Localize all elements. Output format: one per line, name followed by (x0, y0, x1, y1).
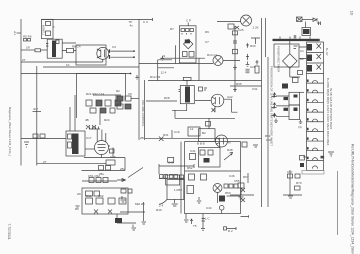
svg-text:T-707/2021: T-707/2021 (7, 224, 11, 240)
svg-text:21: 21 (162, 54, 166, 58)
svg-text:C19: C19 (174, 130, 180, 134)
svg-text:C C: C C (143, 20, 149, 24)
svg-text:6V 6B 12A 12B 35W 50C5 35W4: 6V 6B 12A 12B 35W 50C5 35W4 (329, 88, 333, 129)
svg-text:R50: R50 (225, 191, 231, 195)
svg-text:C41: C41 (190, 149, 196, 153)
svg-text:2T: 2T (43, 160, 47, 164)
svg-text:C22: C22 (227, 95, 233, 99)
svg-text:C7: C7 (205, 40, 209, 44)
svg-text:R52: R52 (187, 166, 193, 170)
svg-text:R24: R24 (104, 118, 110, 122)
svg-text:T2: T2 (297, 38, 301, 42)
svg-text:R5 R6: R5 R6 (23, 35, 32, 39)
svg-text:R21 R22 C14: R21 R22 C14 (86, 92, 105, 96)
svg-text:C46: C46 (229, 174, 235, 178)
svg-text:2 4: 2 4 (159, 204, 164, 208)
svg-text:2.2K: 2.2K (253, 26, 259, 30)
svg-text:C17: C17 (86, 136, 92, 140)
svg-text:R35: R35 (236, 82, 242, 86)
svg-text:C1: C1 (300, 49, 304, 53)
svg-text:R67: R67 (243, 175, 249, 179)
svg-text:Re:URL/T-forCodeModeSmer/Magna: Re:URL/T-forCodeModeSmer/Magnavox_2Star … (351, 144, 355, 254)
svg-text:PROGRESSION OF 117V LINE AND S: PROGRESSION OF 117V LINE AND SWITCHES HE… (270, 66, 274, 146)
svg-text:C31: C31 (252, 87, 258, 91)
svg-text:MM 2D: MM 2D (135, 202, 146, 206)
svg-text:C44: C44 (206, 206, 212, 210)
svg-text:2B+: 2B+ (99, 172, 105, 176)
svg-text:10: 10 (350, 11, 355, 16)
svg-text:R12 C9: R12 C9 (150, 75, 161, 79)
svg-text:2B: 2B (140, 136, 144, 140)
svg-text:1K: 1K (66, 63, 70, 67)
svg-text:B2: B2 (202, 131, 206, 135)
svg-text:R9: R9 (205, 30, 209, 34)
svg-text:R48: R48 (227, 148, 233, 152)
svg-text:12: 12 (190, 127, 194, 131)
svg-text:(4): (4) (298, 125, 302, 129)
svg-text:C51 C52: C51 C52 (88, 174, 100, 178)
svg-text:R31: R31 (163, 133, 169, 137)
svg-text:B B B: B B B (197, 142, 205, 146)
svg-text:4n: 4n (130, 24, 134, 28)
svg-text:R70: R70 (296, 181, 302, 185)
svg-text:2T: 2T (22, 58, 26, 62)
svg-text:C25: C25 (238, 28, 244, 32)
svg-text:2B+: 2B+ (120, 167, 126, 171)
svg-text:C45: C45 (168, 161, 174, 165)
svg-text:R2: R2 (300, 57, 304, 61)
svg-text:C3: C3 (112, 45, 116, 49)
svg-text:12 4: 12 4 (161, 71, 167, 75)
svg-text:TP: TP (13, 31, 17, 35)
svg-text:B: B (108, 144, 110, 148)
svg-text:R14 C2: R14 C2 (207, 53, 218, 57)
svg-text:T5: T5 (193, 224, 197, 228)
svg-text:R61: R61 (86, 194, 92, 198)
svg-text:R40: R40 (156, 208, 162, 212)
svg-text:C57: C57 (287, 170, 293, 174)
svg-text:D 2: D 2 (228, 229, 233, 233)
svg-text:R28: R28 (164, 96, 170, 100)
svg-text:TUNER: TUNER (42, 24, 46, 35)
svg-text:R62: R62 (98, 194, 104, 198)
svg-text:C28: C28 (250, 65, 256, 69)
svg-text:1 R52: 1 R52 (174, 188, 182, 192)
svg-text:B+ A7: B+ A7 (325, 48, 329, 56)
svg-text:R8 C4: R8 C4 (72, 45, 81, 49)
svg-text:VOLUME CONTROL: VOLUME CONTROL (141, 100, 145, 127)
svg-text:C18: C18 (110, 155, 116, 159)
svg-text:4n7: 4n7 (33, 107, 38, 111)
svg-text:R33: R33 (250, 44, 256, 48)
svg-text:POWER RECTIFIER: POWER RECTIFIER (277, 46, 281, 72)
svg-text:R7: R7 (170, 27, 174, 31)
svg-text:Magnavox_2Star Stereo 1234_123: Magnavox_2Star Stereo 1234_1234_( (8, 107, 12, 156)
svg-text:C P: C P (186, 19, 191, 23)
svg-text:C5: C5 (128, 92, 132, 96)
svg-text:D+: D+ (75, 207, 79, 211)
svg-text:4B: 4B (85, 118, 89, 122)
svg-text:R2: R2 (116, 89, 120, 93)
svg-text:C55: C55 (234, 179, 240, 183)
